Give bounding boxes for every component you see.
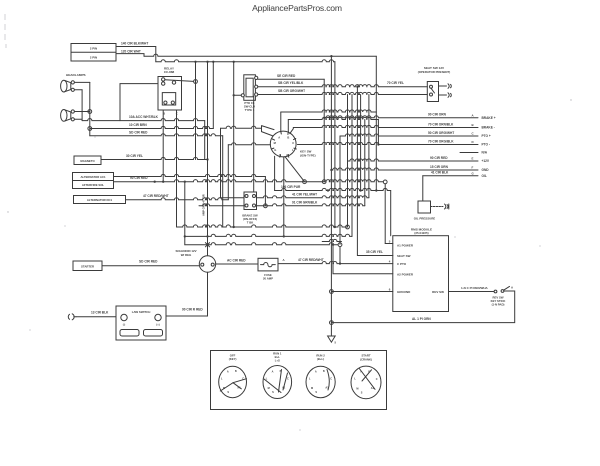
svg-text:(+): (+) [156, 323, 159, 327]
svg-text:SD CIR RED: SD CIR RED [129, 131, 148, 135]
svg-text:10 CIR BRN: 10 CIR BRN [129, 123, 147, 127]
wire 120 CIR WHT [116, 54, 144, 57]
junction [334, 226, 336, 228]
svg-text:6: 6 [389, 287, 391, 291]
junction [332, 244, 334, 246]
wire 41 CIR YEL/WHT [257, 196, 369, 198]
starter solenoid [199, 256, 215, 272]
svg-text:PTO -: PTO - [482, 143, 490, 147]
junction [327, 189, 329, 191]
wire main center drop [207, 62, 209, 256]
wire SD CIR RED drop [222, 136, 224, 227]
relay contact pins [162, 78, 176, 86]
svg-text:G: G [274, 148, 276, 152]
wire 140 CIR BLK/WHT [116, 47, 156, 62]
svg-text:T BK: T BK [247, 221, 254, 225]
wire 196 CIR PUR [275, 188, 391, 190]
wire 90 CIR ORN brake+ [324, 116, 478, 118]
svg-text:4: 4 [389, 259, 391, 263]
junction [375, 189, 377, 191]
svg-text:91 CIR GRN/BLK: 91 CIR GRN/BLK [292, 200, 318, 204]
svg-text:AppliancePartsPros.com: AppliancePartsPros.com [252, 3, 342, 13]
junction X mark [205, 243, 209, 247]
wire module SEAT SW 35 CIR YEL [357, 255, 392, 257]
wire bus drop 2 [334, 62, 336, 227]
junction [206, 158, 208, 160]
wire key A pin bus [280, 112, 282, 132]
svg-text:90 CIR RED: 90 CIR RED [130, 176, 148, 180]
svg-text:AC CIR RED: AC CIR RED [227, 258, 246, 262]
svg-text:+12V: +12V [482, 159, 490, 163]
svg-text:140 CIR BLK/WHT: 140 CIR BLK/WHT [121, 41, 148, 45]
relay switch blade [165, 80, 194, 82]
svg-text:C: C [472, 132, 475, 136]
svg-text:N/A: N/A [482, 151, 488, 155]
svg-text:2 PIN: 2 PIN [90, 55, 97, 59]
ignition switch panel (LAW SWITCH) [116, 306, 166, 340]
wire row A [177, 225, 348, 227]
wire key B jog [377, 120, 379, 145]
wire bus drop 3 [360, 95, 362, 191]
wire key switch funnel entry [262, 126, 275, 136]
junction [184, 235, 186, 237]
svg-text:30 CIR YEL: 30 CIR YEL [126, 154, 143, 158]
svg-text:OIL PRESSURE: OIL PRESSURE [414, 217, 436, 221]
svg-text:M: M [223, 387, 225, 390]
wire to key switch M [228, 143, 270, 145]
svg-text:A2 POWER: A2 POWER [397, 272, 414, 276]
junction [330, 169, 332, 171]
junction relay blade node [194, 80, 198, 84]
svg-text:BRAKE -: BRAKE - [482, 126, 495, 130]
junction [377, 143, 379, 145]
wire key feed riser [220, 128, 222, 198]
seat switch pins [430, 85, 435, 96]
alternator AC1 [73, 173, 114, 181]
wire PTO bus drop [233, 62, 235, 227]
svg-text:90 CIR R RED: 90 CIR R RED [182, 307, 203, 311]
wire PTO left pin [234, 94, 242, 96]
wire row B [185, 234, 352, 236]
svg-text:CC-888: CC-888 [164, 70, 175, 74]
wire 41 CIR BLK oil [423, 175, 478, 177]
scan artifact marks [5, 14, 6, 48]
svg-text:ALTERNATOR DC1: ALTERNATOR DC1 [87, 198, 113, 202]
starter motor [73, 261, 102, 271]
svg-text:S: S [227, 391, 229, 394]
svg-text:41 CIR BLK: 41 CIR BLK [431, 171, 449, 175]
key position dial 2 [263, 366, 292, 399]
wire top bus 2 [156, 60, 335, 62]
wire oil pressure drop [422, 176, 424, 201]
LAW switch keys [120, 330, 139, 337]
svg-text:13 CIR BLK: 13 CIR BLK [91, 310, 109, 314]
wire 90 CIR RED to solenoid [166, 272, 208, 316]
svg-text:M: M [356, 388, 358, 391]
wire 50 CIR ORG/WHT pto+ [340, 134, 478, 136]
panel connector P2 [68, 314, 76, 320]
svg-text:196 CIR PUR: 196 CIR PUR [281, 185, 301, 189]
svg-text:S: S [361, 392, 363, 395]
svg-text:1-N C PI RED/WHA: 1-N C PI RED/WHA [461, 286, 489, 290]
wire relay node drop [195, 62, 197, 160]
reverse switch S4 [494, 286, 509, 293]
junction [330, 290, 334, 294]
wire PTO to brake drop [253, 96, 255, 192]
svg-text:MAGNETO: MAGNETO [80, 159, 95, 163]
svg-text:20 AMP: 20 AMP [263, 277, 273, 281]
wire pto to brake+ riser [323, 79, 325, 182]
wire key A bus [281, 110, 377, 112]
wire SD CIR RED [90, 134, 223, 136]
svg-text:70 CIR ORG/BLK: 70 CIR ORG/BLK [428, 139, 454, 143]
svg-text:A: A [315, 370, 317, 373]
wire module GROUND [331, 291, 392, 293]
wire headlamp bus [89, 82, 91, 135]
svg-text:SD CIR RED: SD CIR RED [139, 260, 158, 264]
wire seat to module drop [356, 87, 358, 256]
svg-text:A: A [511, 286, 514, 290]
junction [339, 262, 341, 264]
wire 70 CIR ORG/BLK pto- [297, 142, 478, 144]
wire acc drop [204, 121, 206, 160]
wire key B pin bus [287, 120, 289, 132]
wire gnd drop [351, 95, 353, 237]
wire +12V drop [347, 95, 349, 228]
wire brake to brake+ riser [368, 95, 370, 198]
wire key S pin drop [283, 157, 285, 237]
svg-text:OIL: OIL [482, 174, 487, 178]
junction [206, 235, 208, 237]
wire 47 CIR RED/WHT fuse to module [278, 262, 393, 264]
svg-text:B: B [368, 371, 370, 374]
junction [283, 235, 285, 237]
wire 90 CIR RED afterfire [114, 180, 384, 182]
junction AC1 to brake row [264, 204, 268, 208]
wire SD CIR RED starter [102, 265, 199, 267]
svg-text:B: B [472, 123, 474, 127]
svg-text:47 CIR RED/WHT: 47 CIR RED/WHT [143, 194, 169, 198]
oil pressure switch [418, 201, 431, 213]
svg-text:W/ REG: W/ REG [181, 253, 192, 257]
wire module A1 drop [384, 184, 386, 244]
module pin labels [397, 243, 444, 293]
svg-text:(1-N PAD): (1-N PAD) [492, 303, 505, 307]
svg-text:C: C [376, 378, 378, 381]
wire 47 CIR RED/WHT alternator [126, 198, 229, 200]
wire row C to fuse row link [339, 247, 341, 264]
svg-text:(B+L): (B+L) [317, 357, 324, 361]
svg-text:A: A [283, 258, 286, 262]
key switch rim pin ticks [272, 132, 297, 158]
junction [212, 61, 214, 63]
seat switch S2 [427, 82, 438, 102]
svg-text:HEADLAMPS: HEADLAMPS [66, 73, 86, 77]
svg-text:SE CIR RED: SE CIR RED [277, 74, 296, 78]
wire headlamp L1 hot [74, 81, 89, 83]
wire SB CIR ORG/WHT [258, 92, 428, 94]
wire key B bus [288, 117, 378, 119]
PTO clutch connector P1 [244, 75, 256, 101]
svg-text:10A ACC WHT/BLK: 10A ACC WHT/BLK [129, 115, 159, 119]
wire bus 1 drop [375, 56, 377, 190]
alternator DC1 [74, 196, 126, 204]
svg-text:41 CIR YEL/WHT: 41 CIR YEL/WHT [292, 192, 317, 196]
svg-text:47 CIR RED/WHT: 47 CIR RED/WHT [298, 258, 324, 262]
svg-text:(25-04225): (25-04225) [414, 231, 428, 235]
wire row D [322, 239, 341, 241]
svg-text:STARTER: STARTER [81, 264, 94, 268]
wire SB CIR YEL/BLK [258, 85, 428, 87]
svg-text:L+S: L+S [275, 359, 280, 363]
wire headlamp L2 return [74, 119, 82, 120]
wire relay pin C drop [176, 110, 178, 227]
svg-text:G: G [472, 171, 475, 175]
junction module A1 node [383, 180, 387, 184]
wire relay pin B drop [162, 110, 164, 182]
relay coil [162, 93, 175, 105]
wire headlamp return link [81, 90, 83, 120]
svg-text:90 CIR RED: 90 CIR RED [430, 156, 448, 160]
junction key L node [303, 180, 307, 184]
svg-text:ALTERNATOR AC1: ALTERNATOR AC1 [80, 175, 106, 179]
svg-text:REV SW: REV SW [432, 290, 444, 294]
svg-text:5: 5 [389, 240, 391, 244]
wire 13 CIR BLK [76, 316, 116, 318]
wire REV SW lead [449, 291, 495, 293]
wire 10 CIR BRN [90, 126, 214, 128]
svg-text:SEAT SW: SEAT SW [397, 254, 411, 258]
connector J1 (2 PIN) [71, 44, 116, 62]
svg-text:F: F [472, 166, 474, 170]
wire key L diagonal [285, 157, 305, 182]
key position dial 4 [351, 366, 381, 399]
wire brake switch feed [220, 197, 244, 199]
svg-text:2 PIN: 2 PIN [90, 47, 97, 51]
wire module A1 POWER [385, 243, 393, 245]
junction [154, 181, 156, 183]
svg-text:(CRANK): (CRANK) [360, 357, 372, 361]
svg-text:(KEY): (KEY) [229, 357, 237, 361]
junction [184, 181, 186, 183]
svg-text:B: B [323, 370, 325, 373]
svg-text:(-): (-) [123, 323, 126, 327]
key switch pin letters [274, 136, 295, 157]
svg-text:S: S [315, 391, 317, 394]
wire ground trunk [330, 56, 332, 322]
junction [356, 86, 358, 88]
svg-text:D: D [472, 140, 474, 144]
wire key feed [221, 126, 262, 128]
svg-text:LAW SWITCH: LAW SWITCH [132, 310, 151, 314]
junction [323, 117, 325, 119]
junction [162, 181, 164, 183]
junction [330, 55, 332, 57]
svg-text:C: C [287, 378, 289, 381]
junction [233, 226, 235, 228]
wire row C [185, 243, 338, 245]
LAW switch pins [121, 314, 161, 320]
wire SE CIR RED [258, 78, 324, 80]
seat switch terminals [439, 84, 452, 98]
svg-text:E: E [472, 157, 474, 161]
headlamp L1 [61, 80, 75, 92]
svg-text:5: 5 [335, 341, 337, 345]
svg-text:120 CIR WHT: 120 CIR WHT [121, 49, 141, 53]
svg-text:C: C [330, 378, 332, 381]
svg-text:BRAKE +: BRAKE + [482, 116, 496, 120]
svg-text:A: A [360, 371, 362, 374]
svg-text:(IGN-TYPE): (IGN-TYPE) [300, 153, 316, 157]
scan specks [7, 99, 571, 430]
svg-text:M: M [274, 141, 277, 145]
svg-text:C: C [242, 378, 244, 381]
wire 30 CIR YEL [101, 157, 208, 159]
wire key G pin drop [274, 156, 276, 190]
wire AC1 drop [264, 177, 266, 206]
fuse F1 20 AMP [258, 258, 278, 271]
svg-text:B: B [287, 136, 289, 140]
key position chart [211, 351, 387, 410]
svg-text:15 CIR ORN: 15 CIR ORN [430, 165, 449, 169]
wire relay pin A lead [120, 84, 158, 121]
svg-text:A: A [272, 370, 274, 373]
wire headlamp L2 hot [74, 111, 89, 113]
svg-text:A: A [278, 136, 280, 140]
svg-text:(OPERATOR PRESENT): (OPERATOR PRESENT) [418, 70, 451, 74]
svg-text:SB CIR ORG/WHT: SB CIR ORG/WHT [278, 89, 305, 93]
wire key C pin riser [290, 128, 294, 134]
key position dial 3 [306, 366, 335, 397]
wire 196 CIR PUR drop [390, 191, 392, 236]
svg-text:70 CIR YEL: 70 CIR YEL [387, 81, 404, 85]
svg-text:50 CIR ORG/WHT: 50 CIR ORG/WHT [428, 131, 454, 135]
wire top bus 1 [144, 54, 376, 56]
svg-text:GND: GND [482, 168, 490, 172]
junction row A node [346, 225, 350, 229]
wire brake riser 2 [364, 120, 366, 206]
svg-text:C: C [292, 141, 294, 145]
svg-text:GROUND: GROUND [397, 290, 411, 294]
brake switch S3 [244, 192, 257, 210]
brake switch pins [245, 195, 256, 208]
svg-text:PTO +: PTO + [482, 134, 491, 138]
svg-text:L: L [266, 377, 268, 380]
wire alternator AC1 lead [114, 174, 266, 176]
wire 10A ACC WHT/BLK [82, 119, 205, 121]
svg-text:M: M [311, 387, 313, 390]
junction [330, 321, 334, 325]
wire module A2 POWER [333, 245, 393, 274]
junction [359, 189, 361, 191]
svg-text:A: A [227, 370, 229, 373]
svg-text:90 CIR ORN: 90 CIR ORN [428, 113, 447, 117]
relay K1 [158, 77, 182, 111]
wire 70 CIR ORN/BLK brake- [294, 125, 479, 127]
svg-text:A1 POWER: A1 POWER [397, 243, 414, 247]
svg-text:S: S [272, 391, 274, 394]
svg-text:L: L [221, 377, 223, 380]
svg-text:B: B [235, 370, 237, 373]
junction [194, 61, 196, 63]
wire solenoid to fuse AC CIR RED [216, 263, 258, 265]
svg-text:A: A [472, 114, 475, 118]
junction [206, 61, 208, 63]
svg-text:M: M [268, 387, 270, 390]
junction [88, 127, 92, 131]
wire 91 CIR GRN/BLK [257, 204, 365, 206]
module U1 (RMS) [393, 236, 449, 312]
junction [88, 110, 92, 114]
svg-text:70 CIR ORN/BLK: 70 CIR ORN/BLK [428, 122, 454, 126]
key position dial 1 [219, 366, 247, 397]
magneto [74, 156, 101, 165]
wire N/A stub [460, 152, 478, 154]
svg-text:35 CIR YEL: 35 CIR YEL [366, 250, 383, 254]
svg-text:AMP GND 47 CIR: AMP GND 47 CIR [202, 194, 206, 216]
wire 10 CIR BRN riser [212, 62, 214, 129]
svg-text:A1: A1 [282, 387, 286, 390]
svg-text:L: L [354, 378, 356, 381]
svg-text:L: L [309, 377, 311, 380]
svg-text:B: B [280, 370, 282, 373]
headlamp L2 [61, 110, 75, 122]
wire key switch M riser [227, 145, 229, 200]
ground symbol [328, 323, 336, 343]
junction [233, 94, 235, 96]
wire headlamp L1 return [74, 89, 82, 91]
wire 15 CIR ORN gnd [331, 168, 478, 170]
svg-text:AL 1 PI ORN: AL 1 PI ORN [412, 317, 431, 321]
svg-text:SB CIR YEL/BLK: SB CIR YEL/BLK [278, 81, 304, 85]
wire 90 CIR RED +12V [348, 159, 479, 161]
svg-text:AFTERFIRE SOL: AFTERFIRE SOL [82, 183, 105, 187]
junction [233, 61, 235, 63]
wire rev switch return AL 1 PI ORN [331, 291, 514, 323]
svg-text:C PTO: C PTO [397, 262, 407, 266]
wire pto+ drop [339, 136, 341, 244]
junction row C node [338, 243, 342, 247]
wire brake switch lower feed [199, 204, 244, 206]
junction pto riser node [322, 180, 326, 184]
oil pressure switch terminal [431, 204, 449, 209]
wire solenoid feed [207, 247, 209, 256]
key switch S1 (ignition) circle [270, 131, 296, 157]
wire row C riser [184, 182, 186, 245]
afterfire solenoid [73, 181, 114, 189]
